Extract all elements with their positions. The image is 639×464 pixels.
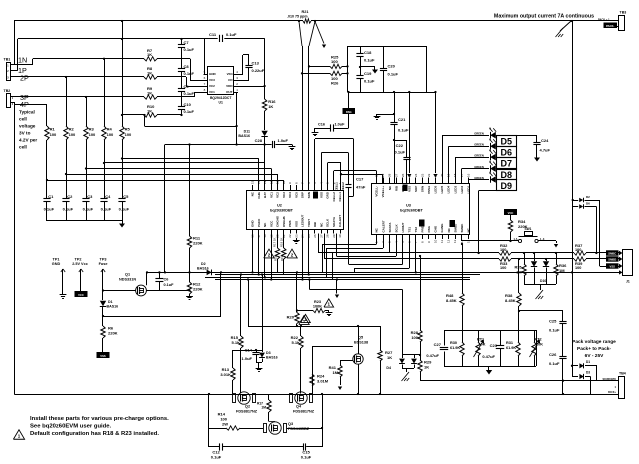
svg-text:SRN: SRN: [421, 186, 425, 192]
svg-text:VC5: VC5: [294, 192, 298, 198]
wire bus long 277: [205, 277, 470, 279]
svg-text:0.1uF: 0.1uF: [395, 150, 406, 155]
svg-text:VCC: VCC: [508, 211, 514, 215]
wire C4 bottom: [104, 201, 106, 221]
svg-text:Q1: Q1: [125, 273, 130, 277]
svg-text:8.45K: 8.45K: [446, 298, 457, 303]
wire U1 VD4 elbow: [238, 55, 249, 75]
net label VCC R34: [504, 209, 517, 215]
resistor R8: [144, 66, 157, 79]
resistor R23: [296, 300, 329, 313]
svg-text:100: 100: [69, 132, 76, 137]
wire U1 pin5 feed: [204, 38, 208, 74]
capacitor C28: [255, 138, 292, 148]
wire cell column 1 upper: [46, 104, 48, 126]
capacitor C19: [356, 67, 375, 92]
svg-text:C1: C1: [48, 194, 54, 199]
wire cell column 4 lower: [104, 140, 106, 198]
svg-text:PACK-: PACK-: [606, 24, 614, 28]
svg-text:SMBC: SMBC: [460, 223, 464, 233]
svg-text:1K: 1K: [147, 52, 152, 57]
connector TB2: [4, 89, 14, 108]
svg-text:15: 15: [466, 239, 470, 243]
note typical cell voltage: [19, 110, 37, 150]
diode D2 BAS16: [197, 262, 212, 275]
node D11 C28 junction: [263, 143, 265, 145]
svg-text:0.1uF: 0.1uF: [184, 47, 195, 52]
svg-text:C20: C20: [388, 64, 396, 69]
diode D1 BAS16: [100, 291, 118, 309]
ground chassis top: [556, 21, 572, 37]
wire OUT row 126: [143, 114, 237, 127]
resistor R28: [411, 255, 423, 342]
svg-text:VSS: VSS: [294, 221, 298, 227]
svg-text:D10: D10: [540, 279, 546, 283]
capacitor C10: [178, 102, 195, 114]
resistor R14: [209, 412, 263, 431]
svg-text:C26: C26: [549, 352, 557, 357]
ground C16: [312, 131, 319, 136]
LED D8: [474, 160, 496, 172]
resistor R33: [499, 257, 511, 270]
svg-text:0.1uF: 0.1uF: [83, 207, 94, 212]
warning triangle note: [13, 430, 24, 440]
svg-text:BAS16: BAS16: [107, 304, 119, 308]
svg-text:R18: R18: [274, 255, 278, 261]
connector J1: [619, 250, 633, 284]
svg-text:22: 22: [288, 234, 292, 238]
resistor R10: [144, 104, 157, 117]
wire D2 net long: [147, 272, 572, 274]
transistor Q3 FDS4435BZ: [264, 422, 310, 435]
svg-text:VC4: VC4: [288, 192, 292, 198]
node 3P junction: [85, 96, 87, 98]
wire CELL1 net: [334, 171, 377, 192]
svg-text:0.1uF: 0.1uF: [364, 79, 375, 84]
svg-text:28: 28: [326, 234, 330, 238]
wire rail B: [18, 38, 265, 40]
svg-text:2.5V Vcc: 2.5V Vcc: [72, 262, 88, 266]
wire bus long 279: [215, 279, 470, 281]
svg-text:VD4: VD4: [227, 72, 233, 76]
IC U3 bq20z60DBT: [372, 173, 471, 243]
wire C chain above C7: [181, 39, 183, 45]
svg-text:LED1: LED1: [466, 185, 470, 193]
net label SMBD: [606, 256, 619, 261]
svg-text:10K: 10K: [536, 343, 543, 347]
wire D4 bottom: [402, 365, 415, 373]
LED label boxes: [497, 136, 517, 191]
wire BAT column to U2: [264, 145, 266, 186]
capacitor C11: [204, 32, 265, 42]
svg-text:Install these parts for variou: Install these parts for various pre-char…: [30, 416, 169, 422]
ground C21: [374, 113, 396, 120]
wire bus row 256: [337, 234, 397, 257]
svg-text:0.1uF: 0.1uF: [398, 128, 409, 133]
svg-text:1.0uF: 1.0uF: [242, 356, 253, 361]
svg-text:0.1uF: 0.1uF: [549, 361, 560, 366]
capacitor C16: [315, 123, 349, 132]
wire C18 block bottom: [348, 92, 428, 94]
svg-text:47nF: 47nF: [356, 185, 366, 190]
svg-text:C18: C18: [364, 50, 372, 55]
resistor R21 sense shunt: [287, 10, 311, 23]
wire U3 TS drop: [415, 239, 417, 274]
ground chassis D4: [402, 372, 410, 381]
svg-text:29: 29: [381, 173, 385, 177]
svg-text:Maximum output current 7A cont: Maximum output current 7A continuous: [494, 14, 594, 20]
wire R16 to D11: [264, 111, 266, 130]
thermistor network box: [444, 330, 537, 367]
diode D11 BAS16: [238, 130, 267, 138]
wire C chain above C10: [181, 91, 183, 106]
svg-text:1K: 1K: [268, 104, 273, 109]
svg-text:16: 16: [466, 173, 470, 177]
wire R10 line: [121, 114, 182, 116]
resistor R12: [187, 272, 202, 294]
svg-text:NDS331N: NDS331N: [119, 277, 136, 281]
resistor R6: [101, 326, 118, 353]
svg-text:CELL2: CELL2: [332, 192, 336, 202]
wire SRN sense: [309, 20, 317, 185]
wire U1 OUT drop: [234, 92, 237, 145]
ground SW1 arrow: [554, 241, 558, 248]
svg-text:CALERT: CALERT: [338, 215, 342, 227]
LED D7: [474, 149, 496, 161]
ground R41 arrow: [338, 377, 342, 390]
svg-text:29: 29: [332, 234, 336, 238]
svg-text:cell: cell: [19, 145, 27, 150]
svg-text:PMS: PMS: [288, 220, 292, 227]
diode D21 upper: [572, 360, 597, 381]
svg-text:LED4: LED4: [447, 185, 451, 193]
wire CELL2 net: [340, 174, 383, 191]
wire pack sense rail: [421, 372, 598, 381]
wire C chain above C8: [181, 47, 183, 68]
warning triangle Q5: [299, 316, 309, 325]
svg-text:1K: 1K: [387, 355, 392, 360]
wire U2 pin18 drop: [264, 234, 266, 279]
capacitor C7: [178, 40, 195, 52]
wire cell tap 4: [65, 173, 278, 185]
svg-text:GND: GND: [209, 72, 217, 76]
svg-text:SRP: SRP: [414, 186, 418, 192]
ground R12: [186, 294, 193, 300]
wire U2 row 139: [315, 139, 354, 186]
LED D6: [474, 138, 496, 150]
svg-text:D2: D2: [586, 195, 590, 199]
svg-text:220K: 220K: [108, 331, 118, 336]
svg-text:1K: 1K: [147, 90, 152, 95]
svg-text:GREEN: GREEN: [474, 132, 484, 136]
label 1P: [18, 66, 27, 75]
svg-text:C4: C4: [105, 194, 111, 199]
capacitor C9: [178, 84, 195, 96]
svg-text:100: 100: [107, 132, 114, 137]
svg-text:C25: C25: [549, 319, 557, 324]
svg-text:GREEN: GREEN: [474, 176, 484, 180]
diode D10b: [543, 258, 549, 284]
svg-text:VC2: VC2: [209, 84, 215, 88]
wire C20 block ext: [427, 92, 435, 94]
svg-text:12: 12: [447, 239, 451, 243]
net label DSG: [343, 108, 356, 114]
note default configuration: [30, 431, 159, 437]
svg-text:220K: 220K: [193, 287, 203, 292]
svg-text:Default configuration has R18: Default configuration has R18 & R23 inst…: [30, 431, 159, 437]
svg-text:100: 100: [89, 132, 96, 137]
svg-text:0.1uF: 0.1uF: [101, 207, 112, 212]
wire cell column 3 upper: [86, 97, 88, 126]
capacitor C26: [549, 352, 567, 394]
svg-text:SW1: SW1: [525, 227, 532, 231]
connector TB1: [4, 58, 11, 81]
svg-text:VC1: VC1: [209, 90, 215, 94]
label 3P: [20, 93, 29, 102]
svg-text:RBI: RBI: [394, 186, 398, 191]
svg-text:14: 14: [257, 180, 261, 184]
svg-text:R19: R19: [280, 255, 284, 261]
resistor R34: [508, 215, 527, 241]
svg-text:LED3: LED3: [453, 185, 457, 193]
warning triangle R23: [324, 299, 334, 307]
wire 2P line: [11, 76, 182, 78]
svg-text:22: 22: [427, 173, 431, 177]
ground C28: [289, 145, 296, 150]
svg-text:0.1uF: 0.1uF: [364, 58, 375, 63]
svg-text:GND: GND: [52, 262, 61, 266]
resistor R31: [506, 330, 520, 366]
svg-text:C17: C17: [356, 177, 364, 182]
diode D4b: [411, 359, 417, 364]
net label VCC TP2: [75, 291, 88, 297]
svg-text:RT2: RT2: [535, 338, 542, 342]
svg-text:BAS16: BAS16: [197, 266, 209, 270]
thermistor RT1: [474, 330, 486, 366]
svg-text:Q3: Q3: [288, 422, 293, 426]
wire bus row 248: [327, 239, 384, 277]
connector TB4: [597, 372, 626, 399]
svg-text:R30: R30: [450, 341, 457, 345]
wire TB1 pin2 riser: [11, 39, 18, 71]
ground C14: [256, 366, 263, 372]
resistor R22: [291, 325, 304, 394]
svg-text:CHG: CHG: [434, 225, 438, 232]
capacitor C20: [380, 46, 399, 92]
svg-text:C28: C28: [255, 138, 263, 143]
wire shunt kelvin arrow: [315, 22, 326, 49]
wire D1 to R6 rail: [102, 307, 221, 326]
svg-text:4.7uF: 4.7uF: [540, 148, 551, 153]
svg-text:R20: R20: [287, 315, 295, 320]
svg-text:13: 13: [453, 239, 457, 243]
svg-text:GANG: GANG: [440, 223, 444, 233]
resistor R37: [574, 243, 586, 255]
svg-text:1M: 1M: [332, 370, 338, 375]
svg-text:SRP: SRP: [301, 192, 305, 198]
svg-text:1K: 1K: [424, 365, 429, 370]
resistor R36: [554, 252, 567, 284]
resistor R39: [574, 257, 586, 270]
wire C1 bottom: [46, 201, 48, 221]
ground chassis D10: [536, 290, 544, 299]
svg-text:2W: 2W: [222, 422, 228, 427]
svg-text:Fuse: Fuse: [99, 262, 108, 266]
wire C18 block top: [348, 46, 428, 48]
wire Q5 source: [357, 364, 359, 395]
svg-text:10: 10: [282, 180, 286, 184]
svg-text:GREEN: GREEN: [474, 165, 484, 169]
wire U2 pin28 drop: [308, 234, 310, 276]
svg-text:voltage: voltage: [19, 124, 36, 129]
capacitor C27: [426, 342, 448, 358]
svg-text:R5: R5: [125, 127, 131, 132]
svg-text:SDATA: SDATA: [388, 222, 392, 233]
wire LED2 feed: [449, 146, 490, 183]
wire U2 pin19 drop: [270, 234, 272, 281]
warning triangle 2b: [287, 249, 297, 258]
wire U1 pin7 feed: [182, 77, 208, 87]
svg-text:100: 100: [500, 248, 506, 252]
wire U2 pin27 drop: [301, 234, 303, 281]
svg-text:100: 100: [331, 59, 338, 64]
wire 3P line: [11, 96, 195, 98]
LED D9: [474, 171, 496, 183]
wire cell tap 3: [85, 167, 272, 185]
svg-text:GREEN: GREEN: [474, 154, 484, 158]
svg-text:1M: 1M: [559, 268, 565, 273]
svg-text:0.1uF: 0.1uF: [119, 207, 130, 212]
svg-text:LED5: LED5: [440, 185, 444, 193]
resistor R25: [308, 55, 349, 69]
svg-text:12: 12: [269, 180, 273, 184]
svg-text:61.9K: 61.9K: [450, 346, 460, 350]
resistor R11: [187, 236, 202, 274]
svg-text:23: 23: [294, 234, 298, 238]
capacitor C1: [43, 194, 54, 212]
svg-text:0.1uF: 0.1uF: [301, 455, 312, 460]
label 4P: [20, 100, 29, 109]
capacitor C2: [62, 194, 73, 212]
ground C24: [534, 155, 540, 162]
svg-text:R4: R4: [107, 127, 113, 132]
svg-text:bq29330DBT: bq29330DBT: [270, 209, 294, 213]
svg-text:cell: cell: [19, 117, 27, 122]
wire C14 D3 bottom: [256, 362, 262, 366]
wire D2 to rail riser: [220, 271, 222, 316]
wire SRN arrow: [433, 91, 437, 178]
transistor Q2 FDS8817NZ: [233, 392, 258, 414]
connector TB3: [598, 11, 626, 31]
wire Q5 drain stub: [357, 325, 359, 354]
wire cell column 5 lower: [122, 140, 124, 198]
warning triangle R20: [301, 314, 311, 322]
svg-text:0.1uF: 0.1uF: [184, 91, 195, 96]
svg-text:R23: R23: [314, 300, 321, 304]
diode D4a: [399, 359, 405, 364]
node pack junctions: [562, 365, 573, 396]
svg-text:R2: R2: [69, 127, 75, 132]
svg-text:TP1: TP1: [53, 258, 60, 262]
capacitor C6: [155, 271, 174, 290]
wire cell column 1 lower: [46, 140, 48, 198]
wire C chain bottom: [180, 38, 182, 116]
note maximum output current: [494, 14, 594, 20]
note install parts: [30, 416, 169, 430]
wire TS arrow: [335, 278, 339, 298]
svg-text:VCELL-: VCELL-: [375, 186, 379, 197]
resistor R9: [144, 86, 157, 99]
wire SRP arrow: [407, 91, 411, 178]
wire R20 feed: [296, 271, 298, 310]
wire cell cap ground rail: [47, 220, 122, 222]
svg-text:TP2: TP2: [75, 258, 82, 262]
LED D5: [474, 127, 496, 139]
wire cell tap 5: [46, 179, 284, 185]
svg-text:LED5: LED5: [434, 185, 438, 193]
svg-text:.010 75 ppm: .010 75 ppm: [287, 15, 308, 19]
wire cell tap 1: [121, 157, 259, 185]
resistor R30: [450, 330, 464, 366]
wire bus row 264: [349, 196, 403, 265]
wire U2 pin17 drop: [258, 234, 260, 276]
resistor R41: [329, 361, 353, 378]
wire TS1 to D4: [308, 278, 402, 355]
svg-text:11: 11: [276, 181, 280, 184]
wire C chain above C9: [181, 71, 183, 88]
wire U2 row 153: [321, 153, 348, 186]
wire LED common drop: [477, 191, 496, 255]
svg-text:SCLK: SCLK: [326, 218, 330, 227]
svg-text:bq20z60DBT: bq20z60DBT: [400, 209, 423, 213]
ground C18 C19 mid: [359, 66, 378, 74]
wire left long drop: [14, 104, 16, 394]
svg-text:1K: 1K: [147, 108, 152, 113]
wire Q5 gate: [312, 346, 353, 394]
wire C14 net: [233, 273, 263, 350]
capacitor C23: [482, 330, 504, 366]
svg-text:C22: C22: [396, 143, 404, 148]
wire bus long 274: [215, 274, 480, 276]
wire Q3 right: [287, 427, 323, 429]
wire LED5 feed: [468, 180, 489, 184]
capacitor C22: [393, 139, 411, 183]
wire bus row 244: [322, 239, 377, 272]
svg-text:VCELL+: VCELL+: [381, 186, 385, 198]
capacitor C17: [346, 177, 366, 197]
wire PRES row: [462, 239, 519, 242]
svg-text:100K: 100K: [313, 305, 322, 309]
resistor R32: [499, 243, 511, 255]
svg-text:U2: U2: [277, 204, 282, 208]
svg-text:19: 19: [447, 173, 451, 177]
wire C5 bottom: [122, 201, 124, 221]
svg-text:0.1uF: 0.1uF: [388, 72, 399, 77]
svg-text:VSS: VSS: [319, 192, 323, 198]
svg-text:SRN: SRN: [307, 192, 311, 198]
svg-text:26: 26: [401, 173, 405, 177]
IC U2 bq29330DBT: [247, 180, 344, 237]
svg-text:U3: U3: [406, 204, 411, 208]
svg-text:D3: D3: [266, 351, 271, 355]
wire rail to TB3: [571, 20, 619, 22]
wire top rail PACK+: [14, 20, 572, 22]
wire R38 to C25: [518, 310, 563, 312]
capacitor C12: [209, 443, 303, 459]
svg-text:BSS138: BSS138: [354, 340, 368, 344]
node 2P junction: [65, 76, 67, 78]
transistor Q1 NDS331N: [102, 273, 191, 296]
